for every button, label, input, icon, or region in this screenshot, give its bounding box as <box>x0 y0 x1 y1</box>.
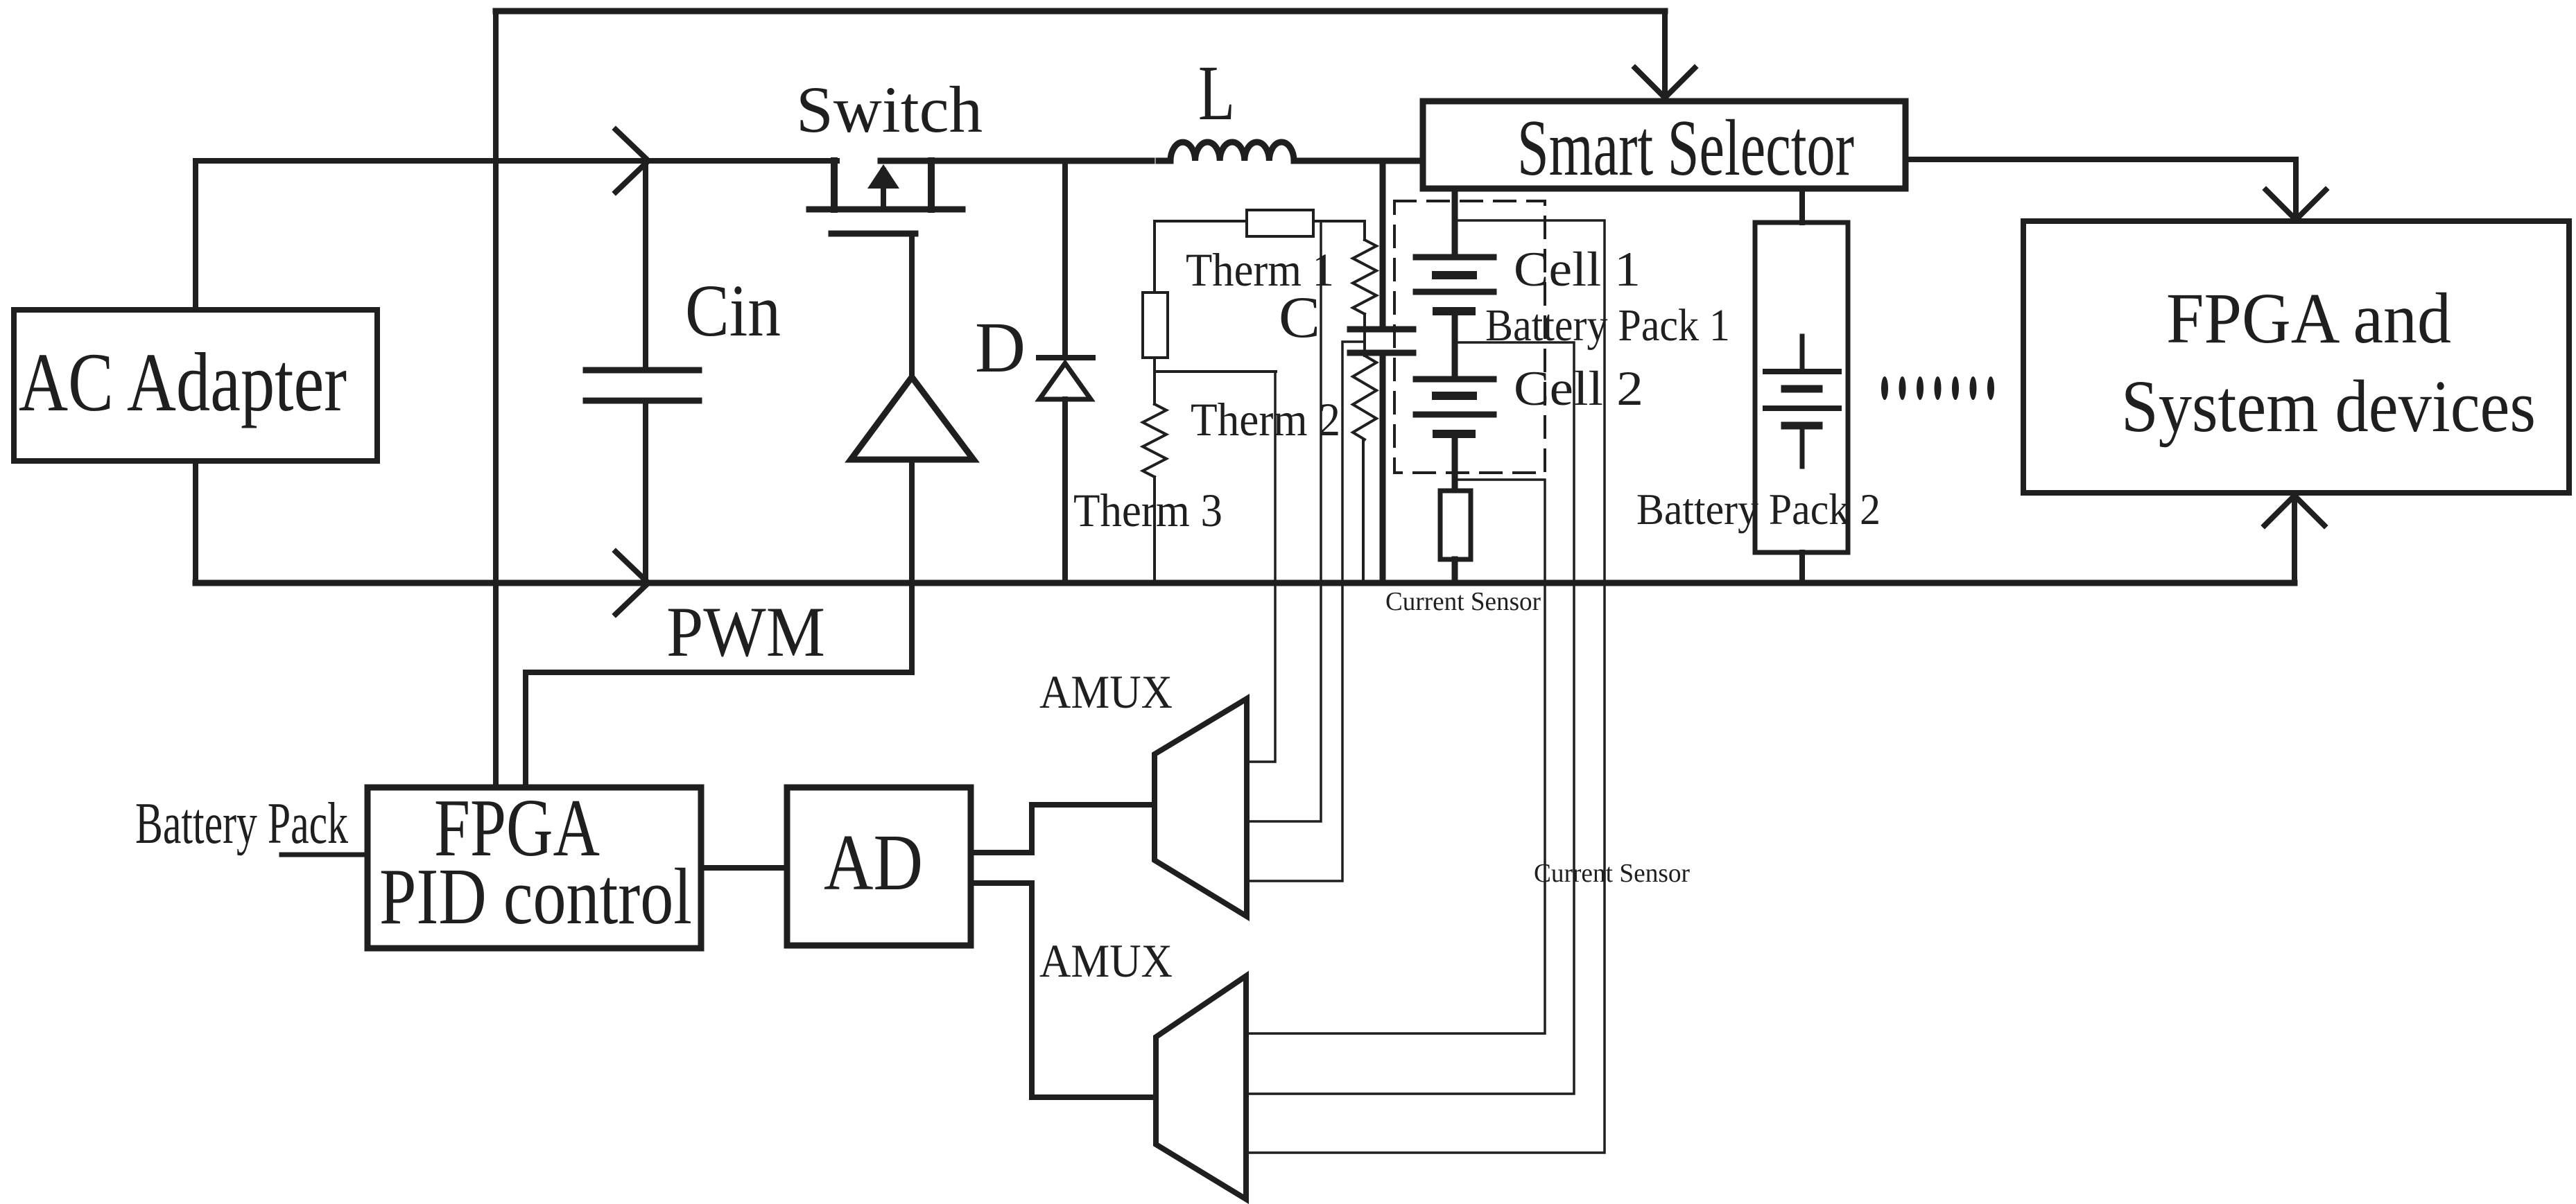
capacitor C branch top <box>1380 161 1386 326</box>
svg-text:Current Sensor: Current Sensor <box>1385 587 1541 616</box>
wire bus to FPGA system box <box>2292 497 2297 583</box>
capacitor Cin plates <box>586 370 699 401</box>
wire left branch upper <box>1153 221 1156 293</box>
wire therm divider top <box>1155 220 1365 223</box>
capacitor Cin branch bottom <box>643 403 648 583</box>
wire AD to AMUX1 <box>971 805 1155 853</box>
wire left branch middle <box>1153 358 1156 404</box>
svg-text:Therm 1: Therm 1 <box>1186 243 1334 296</box>
battery Battery Pack 2 symbol <box>1765 336 1839 466</box>
svg-text:AMUX: AMUX <box>1039 665 1173 718</box>
wire sense B to AMUX1 <box>1247 221 1321 821</box>
diode D branch bottom <box>1062 399 1068 583</box>
wire top feedback bus <box>496 8 1665 15</box>
inductor L coil <box>1159 142 1423 161</box>
FPGA PID control box <box>368 787 701 948</box>
battery Cell 1 <box>1416 257 1494 311</box>
Smart Selector box <box>1423 101 1905 189</box>
wire AMUX2 to cell bottom tap <box>1246 480 1545 1033</box>
capacitor C plates <box>1350 329 1413 353</box>
svg-text:Battery Pack: Battery Pack <box>135 791 348 856</box>
resistor current sensor <box>1440 491 1471 559</box>
svg-text:Therm 2: Therm 2 <box>1191 393 1340 446</box>
diode D triangle <box>1039 363 1091 399</box>
Battery Pack 2 box <box>1755 223 1848 552</box>
transistor Switch source stub <box>928 161 935 209</box>
wire cell2 to current sensor <box>1452 434 1458 491</box>
wire PWM path driver to FPGA PID control <box>526 460 912 787</box>
wire between cells <box>1452 311 1458 379</box>
thermistor Therm 1 <box>1353 240 1376 314</box>
wire AD to AMUX2 <box>971 883 1156 1097</box>
svg-text:AC Adapter: AC Adapter <box>19 336 347 429</box>
mux AMUX2 trapezoid <box>1156 976 1246 1199</box>
mux AMUX1 trapezoid <box>1155 699 1247 916</box>
wire right column mid <box>1363 314 1366 356</box>
svg-text:Cell 2: Cell 2 <box>1514 362 1643 416</box>
svg-text:Cell 1: Cell 1 <box>1514 243 1641 297</box>
svg-text:Switch: Switch <box>796 73 983 146</box>
wire sense A to AMUX1 <box>1247 372 1275 762</box>
op-amp gate driver triangle <box>851 377 974 460</box>
svg-text:Cin: Cin <box>685 270 781 352</box>
wire right column upper stub <box>1363 221 1366 240</box>
thermistor Therm 2 <box>1353 356 1376 439</box>
svg-text:Therm 3: Therm 3 <box>1073 484 1222 536</box>
wire left trunk vertical to FPGA PID control <box>493 11 499 787</box>
wire therm3 to ground bus <box>1153 477 1156 583</box>
capacitor C branch bottom <box>1380 356 1386 583</box>
diode D branch top <box>1062 161 1068 356</box>
wire bottom return bus <box>196 580 2294 586</box>
wire Smart Selector to Battery Pack 2 <box>1799 189 1805 223</box>
thermistor Therm 3 <box>1143 404 1166 477</box>
svg-text:Smart Selector: Smart Selector <box>1517 104 1854 192</box>
wire AC Adapter bottom stub <box>193 461 198 583</box>
svg-text:PWM: PWM <box>666 593 825 672</box>
wire AC Adapter top stub <box>193 161 198 310</box>
transistor Switch drain stub <box>831 161 838 209</box>
svg-text:AMUX: AMUX <box>1039 934 1173 987</box>
transistor Switch body arrow <box>867 164 899 209</box>
wire FPGA PID to AD <box>701 865 787 871</box>
ellipsis dots more packs <box>1881 376 1994 400</box>
svg-text:System devices: System devices <box>2121 366 2536 448</box>
wire gate to driver <box>909 234 915 377</box>
svg-text:Current Sensor: Current Sensor <box>1534 859 1690 888</box>
wire Battery Pack 2 to bus <box>1799 552 1805 583</box>
dashed box Battery Pack 1 <box>1394 201 1545 473</box>
wire Smart Selector to FPGA system box <box>1905 159 2296 218</box>
arrow into FPGA system box bottom <box>2265 496 2324 525</box>
wire Smart Selector to Battery Pack 1 <box>1452 189 1458 257</box>
arrow into Smart Selector top <box>1635 68 1695 98</box>
wire current sensor to bus <box>1452 559 1458 583</box>
svg-text:L: L <box>1198 50 1235 137</box>
svg-text:Battery Pack 2: Battery Pack 2 <box>1636 485 1881 534</box>
resistor top series <box>1247 210 1313 236</box>
svg-text:Battery Pack 1: Battery Pack 1 <box>1485 300 1730 351</box>
node switch-diode rail <box>881 158 1152 164</box>
wire input rail from AC Adapter <box>196 158 837 164</box>
arrow into FPGA system box top <box>2266 190 2326 220</box>
node junction to sense A <box>1155 370 1276 373</box>
wire therm2 to ground bus <box>1362 439 1365 583</box>
AC Adapter box <box>14 310 377 461</box>
svg-text:PID control: PID control <box>379 853 692 941</box>
transistor Switch channel bar <box>809 207 962 213</box>
capacitor Cin branch top <box>643 161 648 367</box>
wire sense C to AMUX1 <box>1247 342 1365 881</box>
transistor Switch gate bar <box>831 231 915 237</box>
wire drop into Smart Selector <box>1662 11 1668 98</box>
svg-text:FPGA and: FPGA and <box>2166 279 2451 358</box>
svg-text:AD: AD <box>824 819 923 907</box>
resistor left series <box>1143 293 1168 358</box>
wire Battery Pack input <box>282 853 368 857</box>
arrow on input rail <box>616 130 648 192</box>
diode D cathode bar <box>1039 355 1093 360</box>
AD box <box>787 787 971 945</box>
arrow on bottom bus <box>616 552 648 614</box>
battery Cell 2 <box>1416 379 1494 434</box>
FPGA and System devices box <box>2023 221 2569 493</box>
wire AMUX2 to cell top tap <box>1246 220 1605 1153</box>
svg-text:D: D <box>975 308 1026 387</box>
wire AMUX2 to cell mid tap <box>1246 342 1574 1094</box>
